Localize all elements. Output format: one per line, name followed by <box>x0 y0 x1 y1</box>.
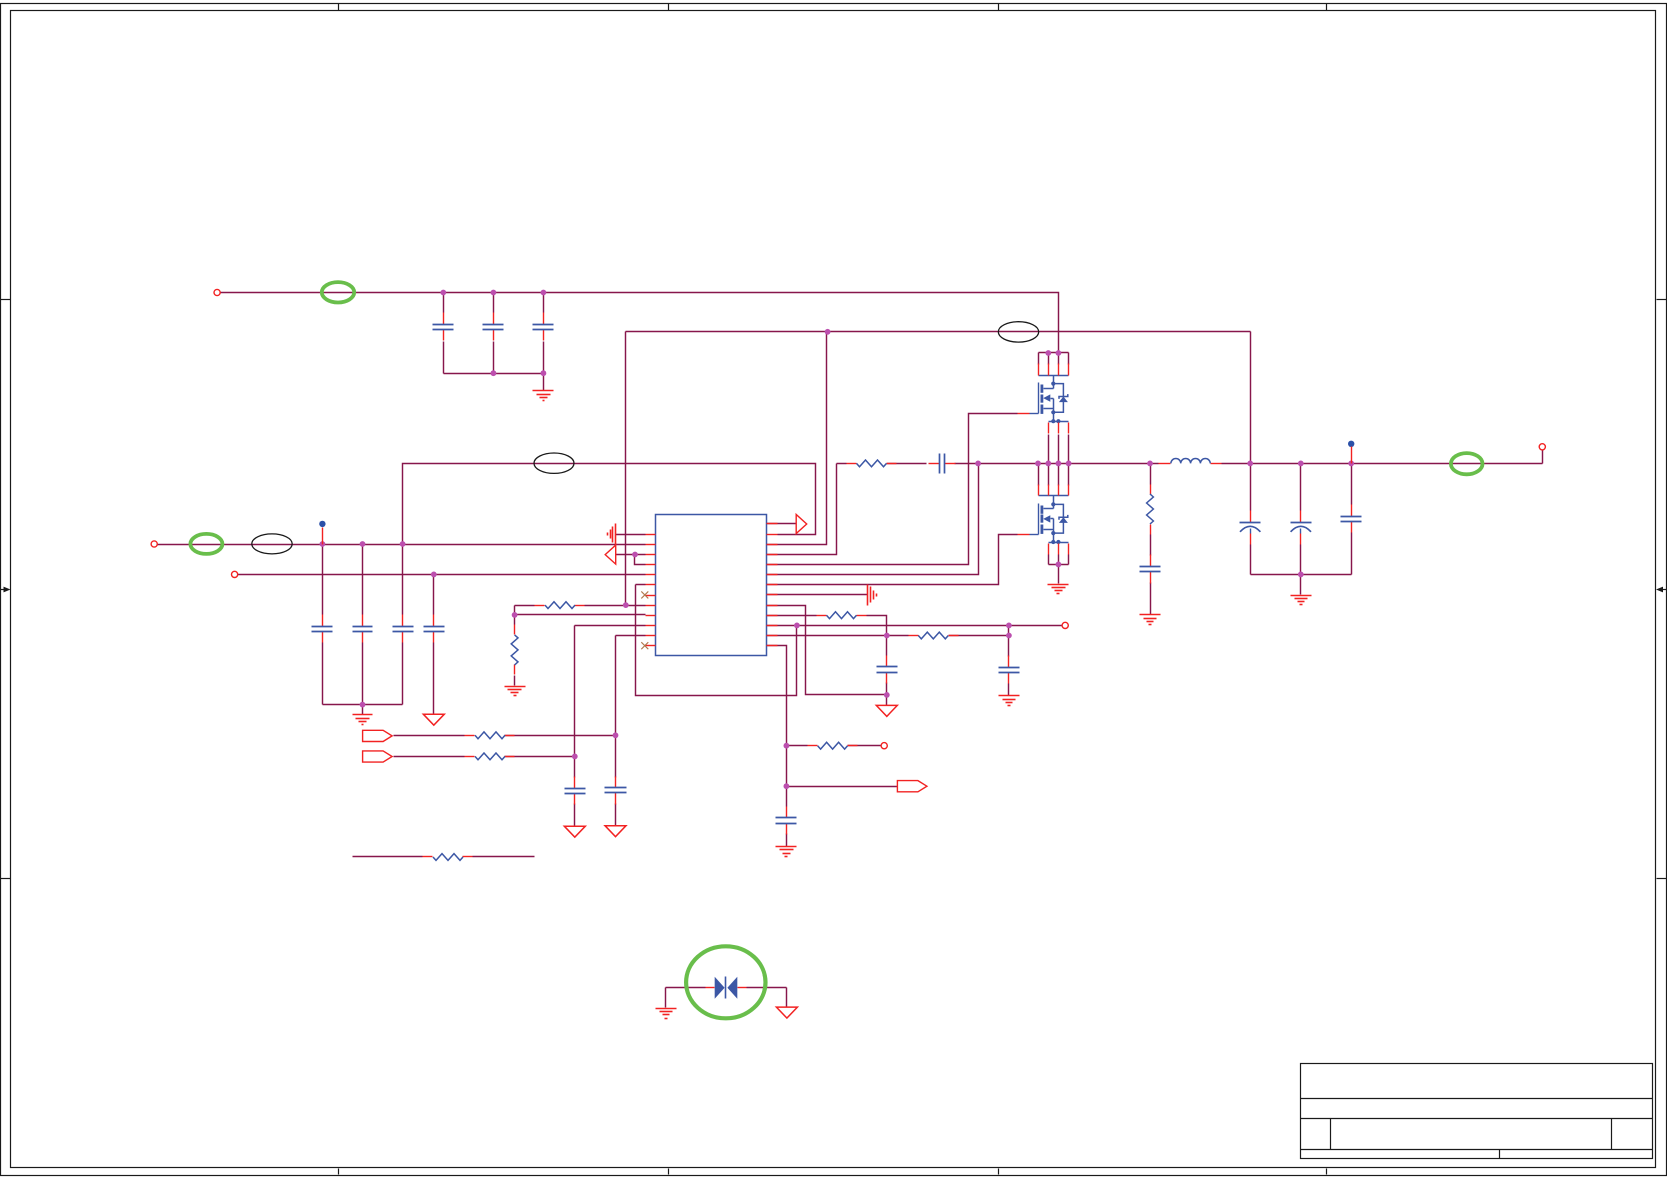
wire EN rail to U1 <box>238 574 646 576</box>
resistor R9 port2 row <box>465 753 515 760</box>
capacitor C1 <box>433 313 454 341</box>
wire VIN input cap branches <box>444 293 544 391</box>
capacitor C16 output polarized <box>1291 511 1312 545</box>
junction dots switch node <box>975 461 1153 467</box>
wire VIN feedback loop to pin R2 <box>403 464 816 545</box>
net marker blue dot output <box>1348 441 1354 464</box>
op-amp U1 controller IC body <box>656 515 767 656</box>
ground C4-C6 bus <box>353 715 373 725</box>
resistor R10 floating <box>423 854 473 861</box>
wire pin R6 to switch node <box>767 464 979 575</box>
wire pin R10 row with resistor <box>767 616 887 636</box>
junction dots output node <box>1247 461 1354 578</box>
callout black ellipse VIN mid <box>252 534 292 554</box>
resistor R1 snubber <box>847 460 897 467</box>
inductor L1 <box>1159 458 1222 463</box>
highlight green ellipse VIN top <box>322 282 354 302</box>
wire input port1 row <box>394 735 616 737</box>
signal ground pin L1 <box>608 524 616 545</box>
wire Q1 drain pins from VIN rail <box>1039 353 1069 365</box>
wire C10 branch <box>886 636 888 706</box>
junction dots port rows <box>572 732 619 759</box>
resistor R4 switch snubber branch <box>1147 485 1154 535</box>
wire pin L11 branch down <box>616 636 646 826</box>
wire Q2 source pins to ground <box>1049 555 1069 584</box>
ground C12 <box>776 847 797 857</box>
junction dots feedback node <box>794 623 1012 698</box>
junction dots VIN mid rail <box>320 541 406 707</box>
junction dot divider node <box>512 612 518 618</box>
ground triangle C7 <box>423 714 444 725</box>
port circle pin R11 test point <box>1062 622 1068 628</box>
resistor R6 pin R12 row <box>909 632 959 639</box>
net marker blue dot VIN mid <box>319 521 325 545</box>
U1 right pins <box>767 524 778 646</box>
wire switch node <box>979 463 1159 465</box>
port P2 VIN mid <box>151 541 157 547</box>
wire Q1 source pins to switch node <box>1049 435 1069 464</box>
capacitor C9 snubber branch <box>1140 555 1161 584</box>
junction dots VIN rail <box>440 290 546 377</box>
wire snubber branch x1150 <box>1150 464 1152 615</box>
junction dot pin L3 tie <box>632 552 638 558</box>
arrow port input 1 <box>363 730 393 741</box>
wire AVIN rail y332 <box>626 332 1251 606</box>
wire pin L8 row with resistor to divider <box>515 605 646 607</box>
callout black ellipse feedback row <box>534 453 574 473</box>
transistor Q1 high-side MOSFET <box>1018 364 1069 434</box>
U1 left pins <box>646 535 656 646</box>
wire pin R11 row to test port <box>767 625 1063 627</box>
wire pin R3 to AVIN rail <box>767 332 827 545</box>
wire snubber RC row <box>837 463 979 465</box>
wire pin L1 to signal ground <box>616 534 646 536</box>
wire pin R11-R12 tie and C11 branch <box>1008 626 1010 696</box>
port P4 VOUT <box>1539 444 1545 450</box>
ground R3 bottom <box>505 687 526 696</box>
port triangle pin L3 <box>605 545 616 564</box>
no-connect X pin L7 <box>641 591 648 598</box>
junction dots Q1 drain bus <box>1045 350 1061 356</box>
junction dots AVIN rail <box>825 329 831 335</box>
center arrow left edge <box>1 587 11 593</box>
capacitor C10 <box>877 656 898 684</box>
port P3 EN <box>232 571 238 577</box>
capacitor C2 <box>483 313 504 341</box>
highlight green ellipse output <box>1451 453 1483 474</box>
arrow port input 2 <box>363 751 393 762</box>
ground triangle C14 <box>564 826 585 837</box>
resistor R2 pin L8 row <box>535 602 585 609</box>
junction dot Q2 source <box>1056 562 1062 568</box>
junction dots EN rail <box>431 572 437 578</box>
capacitor C13 pin L11 branch <box>605 777 627 805</box>
signal ground pin R8 <box>868 585 877 606</box>
capacitor C5 <box>353 615 373 643</box>
center arrow right edge <box>1656 587 1667 593</box>
transistor Q2 low-side MOSFET <box>1018 485 1069 555</box>
wire output cap branches <box>1251 464 1352 595</box>
zone ticks right edge <box>1657 300 1667 879</box>
capacitor C3 <box>533 313 554 341</box>
capacitor C4 <box>312 615 333 643</box>
ground output caps <box>1291 596 1312 605</box>
zone ticks bottom edge <box>339 1169 1327 1175</box>
diode D1 TVS bidirectional <box>706 977 747 999</box>
wire pin R1 to triangle port <box>767 523 797 525</box>
wire pin L10 branch down <box>575 626 646 827</box>
junction dots pin R13 branch <box>784 743 790 789</box>
zone ticks top edge <box>339 4 1327 11</box>
ground triangle C13 <box>605 826 626 837</box>
wire R13 resistor to port <box>787 745 882 747</box>
wire pin L6 loop to pin R11 <box>636 585 797 696</box>
capacitor C17 output <box>1341 505 1362 533</box>
wire output node <box>1222 451 1543 464</box>
capacitor C14 pin L10 branch <box>565 777 586 805</box>
wire VIN top rail <box>221 293 1069 353</box>
wire cap branch C7 <box>433 575 435 715</box>
wire decoupling cap branches left <box>323 545 403 715</box>
ground C3 bottom <box>533 391 554 401</box>
wire pin R13 branch down <box>767 646 787 847</box>
capacitor C8 snubber series <box>929 454 956 474</box>
wire divider node and pin L9 <box>515 606 646 686</box>
callout black ellipse AVIN rail <box>998 322 1038 342</box>
wire floating resistor leads <box>353 856 535 858</box>
wire pin L3/L4 to port <box>616 555 646 565</box>
wire pin R7 to Q2 gate <box>767 535 1018 585</box>
wire input port2 row <box>394 756 575 758</box>
wire Q2 drain pins from switch node <box>1039 464 1069 486</box>
port P1 VIN <box>214 289 220 295</box>
wire pin R5 to Q1 gate <box>767 414 1018 565</box>
title block <box>1301 1064 1653 1159</box>
capacitor C7 <box>424 615 445 643</box>
ground triangle TVS right <box>776 1007 797 1018</box>
highlight green ellipse VIN mid <box>190 534 222 554</box>
ground C11 <box>999 696 1020 706</box>
ground Q2 source <box>1048 585 1069 594</box>
port circle R7 right <box>881 743 887 749</box>
wire TVS diode leads <box>666 988 787 1008</box>
resistor R3 divider <box>511 625 518 675</box>
resistor R5 pin R10 row <box>817 612 867 619</box>
ground C9 <box>1140 615 1161 625</box>
wire R13 to arrow port <box>787 786 898 788</box>
wire pin R9 loop <box>767 606 887 695</box>
capacitor C11 <box>999 656 1020 684</box>
ground TVS left <box>656 1009 677 1019</box>
wire pin R4 to snubber <box>767 464 837 555</box>
port triangle pin R1 <box>796 515 807 534</box>
wire pin R12 row with resistor <box>767 635 1009 637</box>
wire pin R8 to signal ground <box>767 594 868 596</box>
highlight green circle TVS <box>686 946 765 1018</box>
ground triangle C10 node <box>876 705 897 716</box>
junction dot pin L8 node <box>623 602 629 608</box>
no-connect X pin L12 <box>641 642 648 649</box>
zone ticks left edge <box>1 300 11 879</box>
capacitor C12 pin R13 <box>776 807 797 835</box>
wire VIN mid rail to U1 <box>158 544 646 546</box>
resistor R8 port1 row <box>465 732 515 739</box>
capacitor C15 output polarized <box>1240 511 1261 545</box>
resistor R7 pin R13 row <box>808 742 858 749</box>
capacitor C6 <box>393 615 414 643</box>
arrow port pin R13 row <box>897 781 927 792</box>
